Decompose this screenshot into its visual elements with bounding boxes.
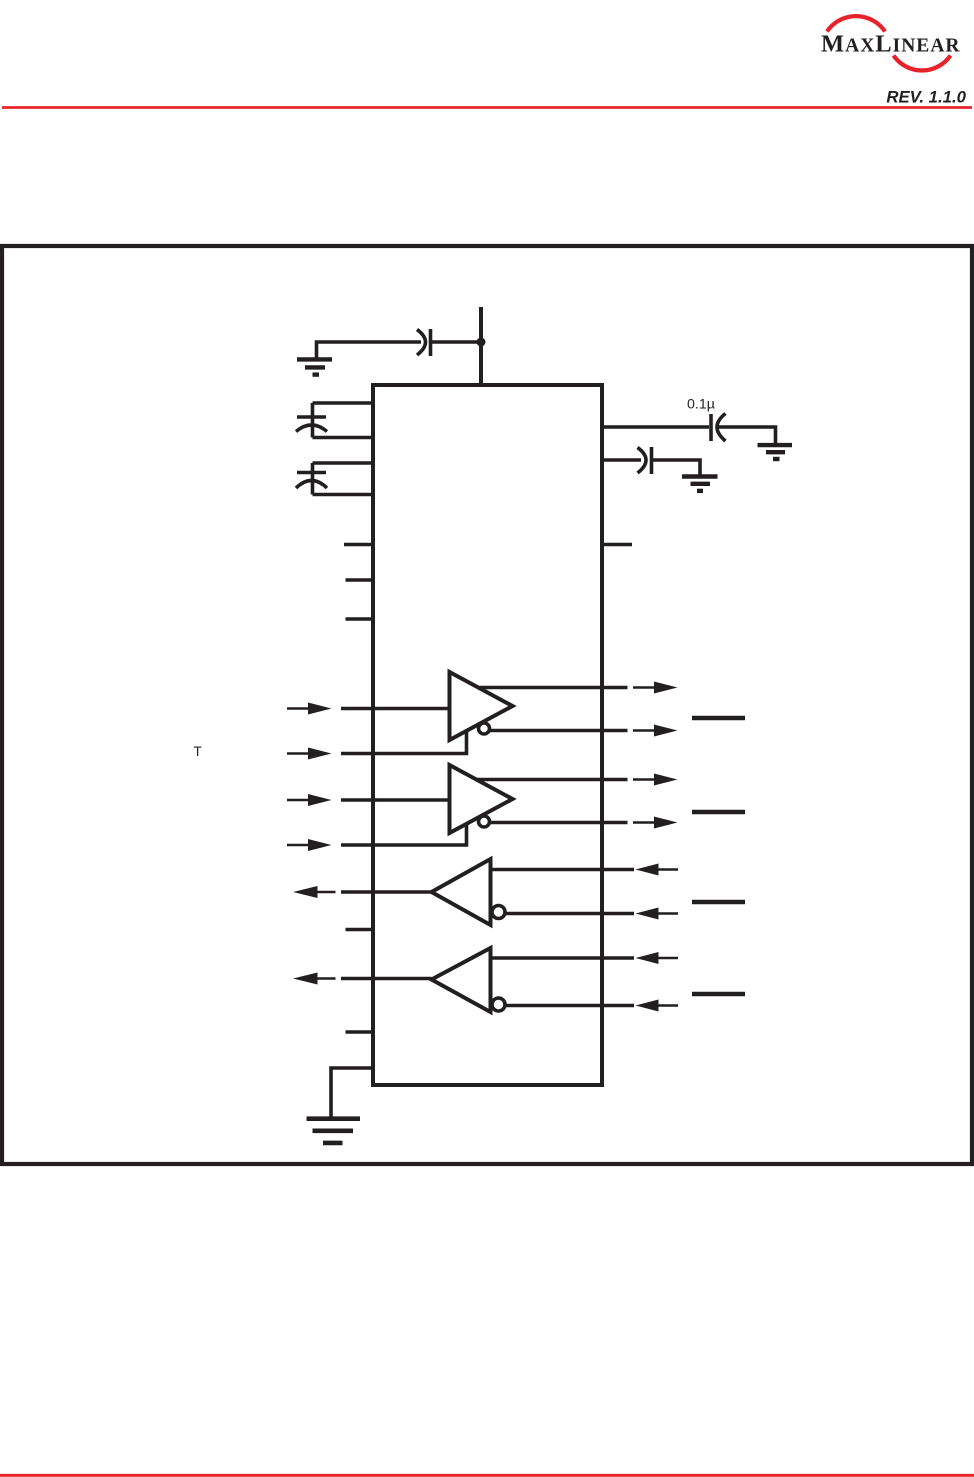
svg-text:MAXLINEAR: MAXLINEAR [821,31,960,58]
wire output DO1+ [478,686,628,690]
MaxLinear logo upper red arc [827,16,885,31]
input arrow RI1- [636,908,679,920]
wire input DI1 [341,707,450,711]
output arrow DO1- [633,725,678,737]
wire input DI2 [341,798,450,802]
capacitor C1 [417,329,431,356]
input arrow DI1B [287,748,332,760]
inversion bubble U1d [492,998,505,1011]
capacitor C2 [296,403,327,438]
input arrow DI2B [287,839,332,851]
wire C4 to ground [717,427,776,444]
wire C1 to VCC node [431,340,482,344]
termination stub T1 [692,716,745,720]
pin stub NC3 [346,617,374,621]
output arrow DO2+ [633,774,678,786]
wire input DI2B [341,824,467,845]
capacitor C4 0.1uF [711,414,726,442]
inversion bubble U1c [492,906,505,919]
wire output DO2- [490,821,628,825]
wire ground to C1 [317,342,422,358]
input arrow RI2- [636,1000,679,1012]
output arrow RO2 [293,973,336,985]
inversion bubble U1b [479,816,490,827]
pin stub NC2 [346,578,374,582]
ground G3 [682,477,718,491]
driver buffer U1b [450,765,513,833]
pin stub NC4 [346,928,374,932]
pin wire VDD [602,425,709,429]
wire input RI2- [505,1004,634,1008]
termination stub T2 [692,810,745,814]
inversion bubble U1a [479,723,490,734]
svg-text:T: T [194,744,202,759]
pin stub NC5 [346,1030,374,1034]
pin wire XTAL1 [313,401,374,405]
pin wire XTAL4 [313,493,374,497]
svg-text:0.1µ: 0.1µ [687,397,715,413]
wire input RI1- [505,912,634,916]
wire output RO2 [341,977,432,981]
input arrow RI1+ [636,864,679,876]
wire C5 to ground [652,460,701,475]
driver buffer U1a [450,672,513,740]
pin wire GND [331,1068,373,1117]
output arrow RO1 [293,886,336,898]
pin stub right NC [602,543,632,547]
output arrow DO2- [633,817,678,829]
output arrow DO1+ [633,682,678,694]
header red rule [2,106,972,109]
ground G2 [758,445,793,459]
junction dot VCC node [477,338,486,347]
input arrow DI1 [287,703,332,715]
termination stub T4 [692,992,745,996]
capacitor C5 [638,447,652,474]
MaxLinear logo lower red arc [894,56,951,71]
input arrow RI2+ [636,952,679,964]
wire input RI1+ [491,868,635,872]
power net VCC wire [479,307,483,385]
pin wire XTAL3 [313,461,374,465]
ground G1 [297,359,332,374]
input arrow DI2 [287,794,332,806]
wire input RI2+ [491,956,635,960]
termination stub T3 [692,900,745,904]
footer red rule [0,1474,974,1477]
wire output DO1- [490,729,628,733]
receiver buffer U1c [432,859,491,925]
IC U1 [373,385,602,1085]
pin stub NC1 [344,543,373,547]
capacitor C3 [296,463,327,495]
svg-text:REV. 1.1.0: REV. 1.1.0 [886,88,966,107]
wire input DI1B [341,731,467,754]
receiver buffer U1d [432,948,491,1012]
pin wire VREF [602,458,641,462]
pin wire XTAL2 [313,436,374,440]
ground G4 [307,1119,361,1143]
wire output DO2+ [478,778,628,782]
wire output RO1 [341,890,432,894]
